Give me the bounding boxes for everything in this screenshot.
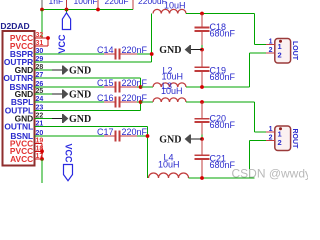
- svg-text:LOUT: LOUT: [291, 41, 298, 61]
- svg-text:220nF: 220nF: [122, 45, 148, 55]
- svg-text:1nF: 1nF: [49, 0, 64, 6]
- svg-text:2: 2: [278, 51, 282, 60]
- svg-text:C17: C17: [97, 127, 114, 137]
- svg-text:2: 2: [269, 47, 273, 54]
- svg-text:2200uF: 2200uF: [138, 0, 167, 6]
- svg-text:1: 1: [269, 39, 273, 46]
- svg-text:10uH: 10uH: [164, 1, 186, 11]
- svg-text:220nF: 220nF: [122, 127, 148, 137]
- svg-text:10uH: 10uH: [162, 72, 184, 82]
- svg-text:GND: GND: [69, 114, 91, 125]
- svg-text:-D2DAD: -D2DAD: [0, 21, 30, 31]
- svg-text:ROUT: ROUT: [291, 129, 298, 150]
- svg-text:VCC: VCC: [57, 34, 67, 54]
- svg-text:C16: C16: [97, 93, 114, 103]
- svg-text:GND: GND: [69, 89, 91, 100]
- svg-text:GND: GND: [159, 134, 181, 145]
- svg-text:2: 2: [269, 135, 273, 142]
- svg-text:680nF: 680nF: [210, 120, 236, 130]
- svg-text:C14: C14: [97, 45, 114, 55]
- svg-text:10uH: 10uH: [158, 160, 180, 170]
- svg-text:OUTNL: OUTNL: [4, 121, 33, 131]
- svg-text:680nF: 680nF: [210, 29, 236, 39]
- svg-text:1: 1: [269, 126, 273, 133]
- svg-text:220uF: 220uF: [105, 0, 129, 6]
- svg-text:C15: C15: [97, 78, 114, 88]
- svg-text:GND: GND: [69, 65, 91, 76]
- svg-text:680nF: 680nF: [210, 72, 236, 82]
- svg-text:100nF: 100nF: [74, 0, 98, 6]
- svg-text:VCC: VCC: [64, 144, 74, 164]
- svg-text:GND: GND: [159, 45, 181, 56]
- svg-text:10uH: 10uH: [161, 86, 183, 96]
- svg-text:AVCC: AVCC: [10, 154, 33, 164]
- svg-text:CSDN @wwdylh2: CSDN @wwdylh2: [232, 167, 309, 181]
- svg-text:2: 2: [278, 138, 282, 147]
